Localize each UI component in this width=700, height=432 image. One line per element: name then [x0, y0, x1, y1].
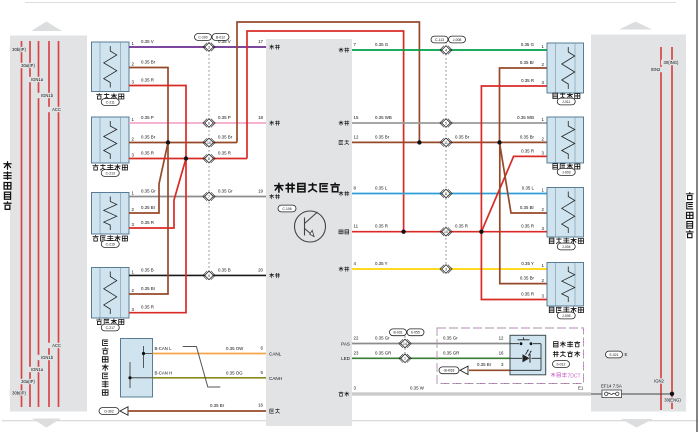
module right pin numbers: [354, 42, 357, 47]
svg-text:0.35 Y: 0.35 Y: [375, 261, 388, 266]
wire 0.35Y rear-right-middle signal: [352, 268, 547, 270]
svg-text:IGN1b: IGN1b: [41, 355, 54, 360]
svg-text:0.35 Gr: 0.35 Gr: [443, 336, 458, 341]
svg-text:C-113: C-113: [435, 38, 444, 42]
splice 4R: [440, 46, 452, 55]
fuse EF14 7.5A: [602, 390, 622, 398]
svg-text:0.35 Br: 0.35 Br: [141, 60, 156, 65]
splice 8R: [440, 189, 452, 198]
svg-text:EF14 7.5A: EF14 7.5A: [601, 383, 622, 388]
wire R2 pin3 red diagonal: [481, 156, 547, 231]
junction red right: [479, 230, 483, 234]
wire PAS 0.35 Gr: [352, 343, 510, 345]
svg-text:0.35 Br: 0.35 Br: [477, 362, 492, 367]
splice 14: [399, 339, 411, 348]
svg-text:0.35 Y: 0.35 Y: [521, 261, 534, 266]
splice 7: [203, 192, 215, 201]
svg-text:0.35 Br: 0.35 Br: [375, 134, 390, 139]
svg-text:CANH: CANH: [269, 376, 282, 381]
wire 0.35V front-left signal: [129, 46, 266, 48]
wire S4 pin2 brown: [129, 143, 168, 295]
twisted pair symbol: [183, 347, 221, 388]
svg-text:J-004: J-004: [562, 245, 571, 249]
svg-text:30(ING): 30(ING): [664, 60, 679, 65]
wire red loop top: [247, 31, 404, 232]
svg-text:C-200: C-200: [198, 35, 207, 39]
module left pin numbers: [258, 39, 263, 44]
svg-text:11: 11: [444, 141, 448, 145]
module right wire labels: [375, 42, 389, 47]
connector b-012: [553, 361, 570, 368]
svg-text:7: 7: [208, 195, 210, 199]
svg-text:8: 8: [208, 157, 210, 161]
splice 6: [203, 119, 215, 128]
svg-text:E-021: E-021: [609, 353, 618, 357]
splice 5R: [440, 119, 452, 128]
svg-text:IGN1b: IGN1b: [41, 93, 54, 98]
connector C-113: [431, 36, 448, 43]
wire brown ground bus left: [129, 142, 237, 144]
svg-text:0.35 Br: 0.35 Br: [520, 205, 535, 210]
connector C-200: [195, 34, 212, 41]
svg-text:3: 3: [208, 45, 210, 49]
wire 0.35L rear-left-middle signal: [352, 193, 547, 195]
svg-text:ACC: ACC: [52, 343, 61, 348]
wire 0.35G rear-left signal: [352, 49, 547, 51]
module pin labels: [270, 45, 280, 50]
svg-text:16: 16: [258, 403, 263, 408]
wire: [21, 41, 23, 407]
wire LED 0.35 GR: [352, 357, 510, 359]
svg-text:1: 1: [404, 357, 406, 361]
svg-text:0.35 V: 0.35 V: [141, 39, 154, 44]
wire 0.35Gr front-right-middle signal: [129, 196, 266, 198]
svg-text:0.35 L: 0.35 L: [375, 186, 388, 191]
junction red right loop: [401, 230, 405, 234]
wire S4 pin3 red: [129, 159, 186, 313]
svg-text:9: 9: [208, 274, 210, 278]
junction brown right: [497, 140, 501, 144]
svg-text:30(ENG): 30(ENG): [664, 398, 681, 403]
wire S3 pin3 red: [129, 159, 186, 229]
wire 0.35P front-left-middle signal: [129, 122, 266, 124]
svg-text:J-003: J-003: [562, 170, 571, 174]
svg-text:16: 16: [499, 350, 504, 355]
splice 1: [399, 354, 411, 363]
svg-text:0.35 Br: 0.35 Br: [520, 60, 535, 65]
svg-text:0.35 B: 0.35 B: [141, 268, 154, 273]
splice 8: [203, 154, 215, 163]
switch box 副仪表台开关总成: [510, 335, 546, 375]
svg-text:0.35 Br: 0.35 Br: [141, 135, 156, 140]
splice 10R: [440, 227, 452, 236]
svg-text:IGN1a: IGN1a: [31, 77, 44, 82]
sensor 后右探头 J-003: [542, 117, 584, 175]
engine fuse box 前舱电器盒: [619, 22, 652, 30]
svg-text:4: 4: [445, 48, 447, 52]
svg-text:5: 5: [445, 121, 447, 125]
svg-text:J-008: J-008: [453, 38, 462, 42]
svg-text:0.35 Br: 0.35 Br: [141, 286, 156, 291]
svg-text:0.35 R: 0.35 R: [218, 151, 231, 156]
sensor 前左中探头 C-213: [92, 117, 135, 176]
svg-text:C-213: C-213: [106, 171, 115, 175]
wire labels right sensors: [521, 42, 535, 47]
svg-text:30b(IP): 30b(IP): [12, 47, 26, 52]
svg-text:12: 12: [354, 134, 359, 139]
svg-text:0.35 R: 0.35 R: [141, 220, 154, 225]
svg-text:0.35 B: 0.35 B: [218, 268, 231, 273]
svg-text:0.35 Br: 0.35 Br: [520, 276, 535, 281]
junction red left: [184, 156, 188, 160]
CAN network box 详见网络拓扑图: [121, 339, 153, 398]
wire: [48, 41, 50, 407]
svg-text:0.35 WB: 0.35 WB: [517, 115, 534, 120]
wire IGN2: [660, 47, 662, 410]
svg-text:IGN2: IGN2: [654, 379, 664, 384]
wire red bus left: [129, 158, 247, 160]
wire: [25, 2, 676, 4]
note 7DCT magenta: [551, 373, 581, 380]
svg-text:PAS: PAS: [341, 341, 350, 346]
7DCT dashed box: [437, 328, 584, 384]
svg-text:0.35 WB: 0.35 WB: [375, 115, 392, 120]
splice 11R: [440, 138, 452, 147]
diamond labels left: [218, 39, 231, 44]
svg-text:0.35 R: 0.35 R: [521, 292, 534, 297]
svg-text:0.35 G: 0.35 G: [375, 42, 389, 47]
connector B-012: [212, 34, 229, 41]
diamond labels right: [455, 134, 470, 139]
svg-text:0.35 Br: 0.35 Br: [141, 205, 156, 210]
wire R3 pin2 brown diagonal: [500, 142, 548, 213]
wire ground 0.35 Br: [128, 410, 266, 412]
junction 30ENG: [670, 392, 674, 396]
svg-text:J-011: J-011: [562, 100, 570, 104]
splice 3R: [440, 265, 452, 274]
wire 0.35R power bus right: [352, 231, 547, 233]
wire R1 pin3 red: [481, 86, 547, 232]
svg-text:B-CAN L: B-CAN L: [155, 346, 173, 351]
svg-text:0.35 R: 0.35 R: [141, 151, 154, 156]
svg-text:10: 10: [444, 230, 448, 234]
svg-text:0.35 R: 0.35 R: [521, 78, 534, 83]
svg-text:6: 6: [208, 121, 210, 125]
wire 0.35W ignition E1: [352, 393, 591, 396]
wire R4 pin3 red: [481, 232, 547, 300]
harness dashed bottom: [404, 336, 406, 358]
connector J-008: [449, 36, 466, 43]
svg-text:b-055: b-055: [411, 331, 420, 335]
svg-text:0.35 Gr: 0.35 Gr: [141, 189, 156, 194]
svg-text:G-302: G-302: [104, 409, 114, 413]
svg-text:0.35 Gr: 0.35 Gr: [218, 189, 233, 194]
svg-text:0.35 Br: 0.35 Br: [218, 135, 233, 140]
svg-text:IGN1a: IGN1a: [31, 367, 44, 372]
sensor 前右探头 C-217: [92, 268, 135, 331]
svg-text:0.35 R: 0.35 R: [141, 305, 154, 310]
wire brown loop top: [237, 22, 419, 143]
ground GH018: [439, 367, 459, 374]
svg-text:14: 14: [403, 342, 407, 346]
svg-text:ACC: ACC: [52, 107, 61, 112]
transistor symbol: [295, 211, 326, 242]
svg-text:0.35 P: 0.35 P: [141, 115, 154, 120]
svg-text:C-106: C-106: [282, 207, 291, 211]
wire: [29, 41, 31, 407]
svg-text:0.35 R: 0.35 R: [455, 224, 468, 229]
wire 30(ING): [671, 47, 673, 409]
splice 3: [203, 43, 215, 52]
svg-text:CANL: CANL: [269, 351, 282, 356]
wire B-CAN L 0.35 OW: [153, 353, 267, 355]
svg-text:10: 10: [207, 141, 211, 145]
svg-text:0.35 L: 0.35 L: [522, 186, 535, 191]
svg-text:IGN2: IGN2: [651, 67, 661, 72]
junction brown left: [166, 140, 170, 144]
svg-text:15: 15: [354, 115, 359, 120]
wire 0.35WB rear-right signal: [352, 122, 547, 124]
svg-text:23: 23: [354, 350, 359, 355]
svg-text:3: 3: [445, 267, 447, 271]
node 仪表电器盒 label: [4, 162, 11, 210]
wire S1 pin2 brown: [129, 68, 168, 143]
svg-text:E1: E1: [578, 385, 584, 390]
wire 0.35B front-right signal: [129, 274, 266, 276]
svg-text:0.35 R: 0.35 R: [521, 148, 534, 153]
svg-text:0.35 G: 0.35 G: [521, 42, 535, 47]
svg-text:0.35 OG: 0.35 OG: [226, 370, 243, 375]
wire R4 pin2 brown: [500, 142, 547, 283]
svg-text:20: 20: [258, 268, 263, 273]
svg-text:C-211: C-211: [106, 100, 115, 104]
svg-text:0.35 GR: 0.35 GR: [375, 350, 391, 355]
wire labels left: [141, 39, 154, 44]
svg-text:0.35 GR: 0.35 GR: [443, 350, 459, 355]
svg-text:30b(IP): 30b(IP): [12, 391, 26, 396]
svg-text:7DCT: 7DCT: [568, 374, 581, 380]
svg-text:b-012: b-012: [557, 362, 566, 366]
svg-text:30a(IP): 30a(IP): [21, 379, 35, 384]
svg-text:GH018: GH018: [444, 369, 455, 373]
sensor 后左中探头 J-004: [542, 188, 584, 250]
svg-text:B-031: B-031: [393, 331, 402, 335]
wire: [38, 41, 40, 407]
svg-text:0.35 W: 0.35 W: [410, 386, 425, 391]
wire S1 pin3 red: [129, 86, 186, 159]
svg-text:0.35 R: 0.35 R: [521, 224, 534, 229]
svg-text:B-CAN H: B-CAN H: [155, 370, 173, 375]
ground G-302: [99, 408, 119, 415]
instrument fuse box 仪表电器盒: [31, 22, 62, 32]
node 前舱电器盒 label: [686, 193, 693, 238]
svg-text:C-217: C-217: [106, 326, 115, 330]
svg-text:0.35 Br: 0.35 Br: [455, 134, 470, 139]
wire: [58, 41, 60, 407]
sensor 前左探头 C-211: [92, 41, 135, 105]
svg-text:J-005: J-005: [562, 314, 571, 318]
svg-text:11: 11: [354, 224, 359, 229]
svg-text:12: 12: [499, 336, 504, 341]
wire 0.35Br ground bus right: [352, 141, 547, 143]
connector E-021: [606, 351, 623, 358]
svg-text:0.35 V: 0.35 V: [218, 39, 231, 44]
svg-text:C-215: C-215: [106, 242, 115, 246]
svg-text:22: 22: [354, 336, 359, 341]
sensor 后左探头 J-011: [542, 43, 584, 105]
sensor 前右中探头 C-215: [92, 191, 135, 248]
wire gh brown: [469, 369, 510, 371]
svg-text:19: 19: [258, 189, 263, 194]
svg-text:8: 8: [445, 192, 447, 196]
svg-text:0.35 Gr: 0.35 Gr: [375, 336, 390, 341]
svg-text:0.35 R: 0.35 R: [375, 224, 388, 229]
splice 10: [203, 138, 215, 147]
svg-text:30a(IP): 30a(IP): [21, 63, 35, 68]
sensor 后右中探头 J-005: [542, 263, 584, 319]
connector C-106: [278, 205, 296, 212]
svg-text:17: 17: [258, 39, 263, 44]
svg-text:0.35 OW: 0.35 OW: [226, 346, 244, 351]
junction brown right loop: [417, 140, 421, 144]
wire B-CAN H 0.35 OG: [153, 377, 267, 379]
module U1 倒车雷达模块 reverse radar module: [266, 39, 352, 426]
harness dashed right: [445, 42, 447, 268]
svg-text:0.35 P: 0.35 P: [218, 115, 231, 120]
svg-text:LED: LED: [341, 356, 351, 361]
connector B-031: [390, 329, 407, 336]
svg-text:0.35 Br: 0.35 Br: [520, 134, 535, 139]
wire R1 pin2 brown: [500, 68, 548, 142]
svg-text:0.35 Br: 0.35 Br: [210, 403, 225, 408]
wire S3 pin2 brown: [129, 143, 168, 214]
connector b-055: [407, 329, 424, 336]
svg-text:0.35 R: 0.35 R: [141, 78, 154, 83]
svg-text:E: E: [625, 352, 628, 357]
svg-text:18: 18: [258, 115, 263, 120]
splice 9: [203, 271, 215, 280]
harness dashed left: [208, 42, 210, 275]
